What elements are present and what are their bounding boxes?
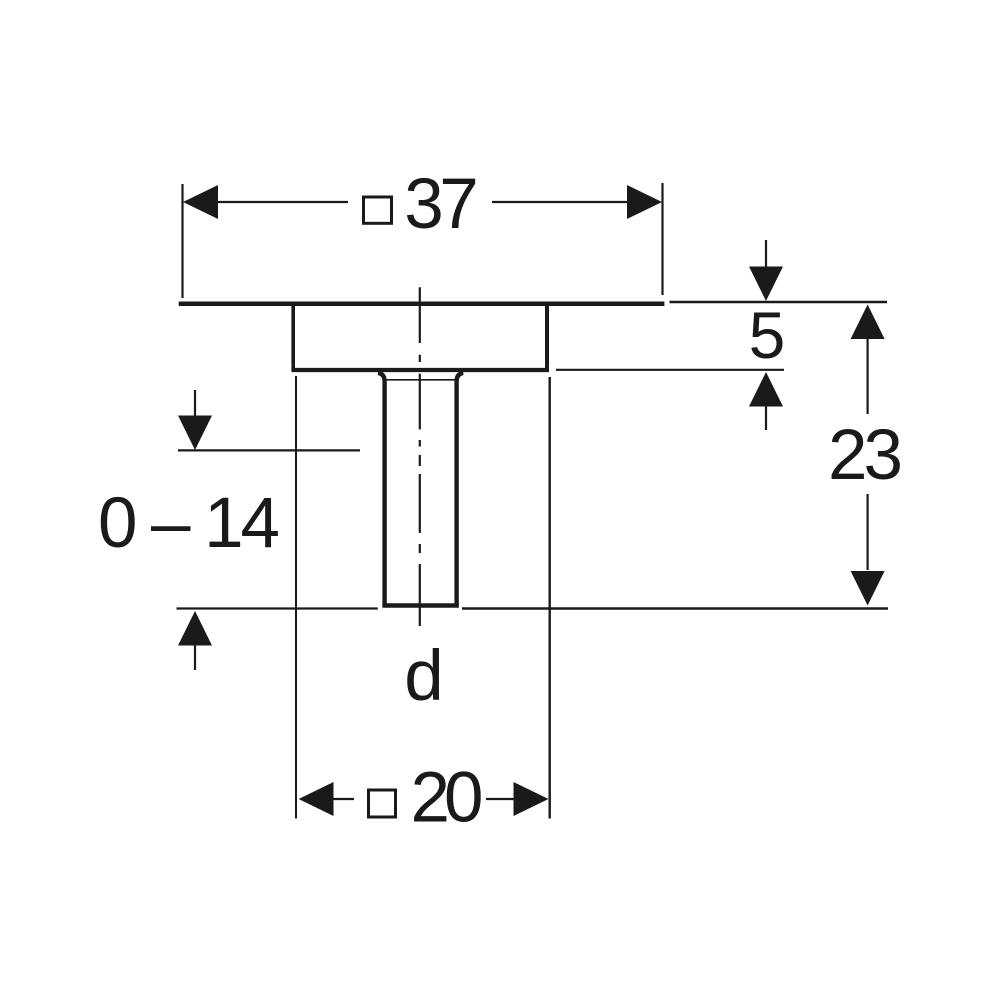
svg-text:23: 23: [828, 416, 903, 495]
svg-text:d: d: [404, 637, 444, 716]
svg-text:37: 37: [404, 165, 479, 244]
svg-text:0 – 14: 0 – 14: [98, 484, 280, 563]
svg-text:5: 5: [749, 298, 786, 372]
svg-text:20: 20: [411, 759, 484, 838]
